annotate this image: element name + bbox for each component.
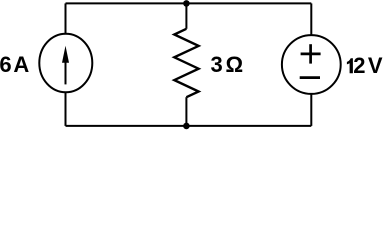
svg-text:3 Ω: 3 Ω	[211, 52, 244, 77]
wire top	[66, 2, 312, 4]
wire right upper	[310, 3, 312, 35]
svg-text:2 V: 2 V	[353, 53, 383, 78]
wire right lower	[310, 94, 312, 126]
node junction dot bottom	[183, 123, 190, 130]
svg-text:6 A: 6 A	[0, 52, 29, 77]
voltage source V1 minus sign	[300, 76, 320, 79]
voltage source V1 circle	[282, 35, 341, 94]
voltage source V1 plus sign	[301, 44, 321, 63]
wire left upper	[65, 3, 67, 34]
wire resistor top lead	[185, 3, 187, 28]
resistor R1 3-ohm zigzag	[174, 29, 198, 97]
label 12 V digit 1 glyph	[347, 58, 353, 73]
current source I1 circle	[39, 34, 92, 93]
wire resistor bottom lead	[185, 97, 187, 126]
wire bottom	[66, 125, 312, 127]
wire left lower	[65, 92, 67, 126]
node junction dot top	[183, 0, 190, 7]
current source I1 arrow	[62, 46, 69, 85]
